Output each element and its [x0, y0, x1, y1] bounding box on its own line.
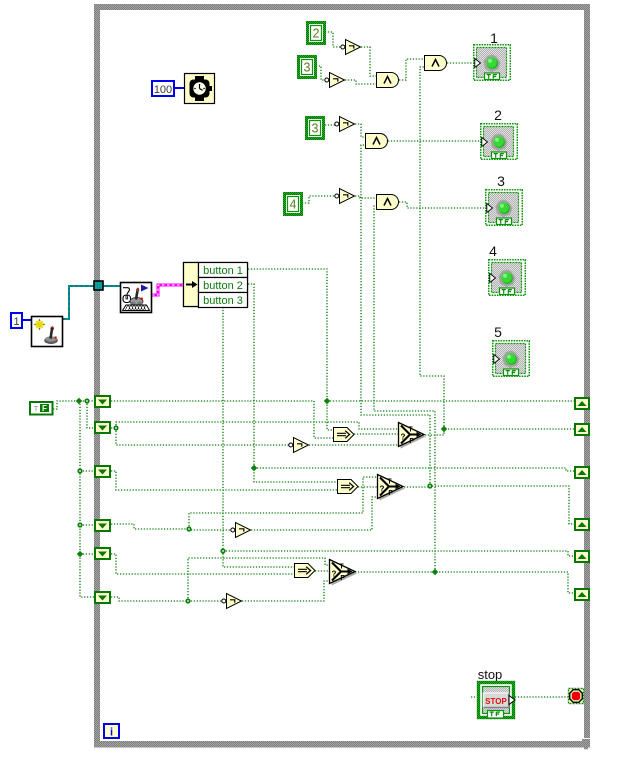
wire branch to shift register L2	[87, 401, 94, 428]
wire shift register L3 to implies P2 bottom	[111, 471, 337, 490]
LED indicator 5	[493, 341, 530, 377]
wire NOT D to AND F top	[355, 196, 376, 198]
initialize joystick node	[32, 317, 63, 347]
wire false constant to shift register L1	[53, 401, 94, 409]
wire implies P3 to select S3 s input	[315, 570, 329, 572]
numeric constant 2	[308, 23, 325, 44]
numeric constant 1	[11, 313, 22, 328]
junction on button1 wire	[324, 398, 331, 405]
wire shift register L6 to select S3 t input	[188, 558, 329, 601]
shift register left L1	[95, 396, 110, 407]
wire AND D to LED 2	[388, 140, 481, 142]
svg-text:4: 4	[489, 243, 497, 259]
wire select S3 output to right shift register R6	[355, 572, 576, 593]
wire NOT E to select S2 f input	[251, 497, 377, 530]
wire select S3 feedback to AND F bottom	[374, 206, 435, 572]
AND gate E	[425, 56, 447, 71]
wire constant3b to NOT C	[325, 124, 336, 126]
NOT gate F	[222, 594, 242, 609]
while loop border top	[94, 4, 590, 10]
shift register right R6	[575, 589, 589, 600]
select function S1	[399, 423, 427, 449]
wait ms function node	[185, 74, 215, 104]
wire shift register L6 to junction	[111, 597, 188, 601]
wire select S2 output to right shift register R4	[404, 486, 576, 524]
numeric constant 3b	[307, 118, 324, 139]
junction on false constant trunk at L4	[77, 522, 82, 527]
wire stop terminal to loop condition	[515, 696, 568, 698]
junction on button2 wire	[251, 465, 258, 472]
svg-text:button 3: button 3	[203, 295, 243, 307]
junction on shift register L2 wire	[113, 425, 118, 430]
NOT gate D	[335, 189, 355, 204]
svg-text:2: 2	[494, 107, 502, 123]
wire branch to shift register L3	[80, 470, 94, 472]
junction on false constant wire A	[76, 398, 83, 405]
wire shift register L4 to select S2 t input	[189, 477, 377, 529]
wire button3 to right shift register R5	[223, 551, 576, 556]
junction on button3 wire	[220, 548, 225, 553]
wire false constant trunk down left side	[80, 401, 94, 597]
LED indicator 4	[489, 260, 526, 296]
svg-text:3: 3	[304, 61, 311, 75]
wire branch to shift register L5	[80, 553, 94, 555]
junction on false constant wire B	[84, 398, 89, 403]
AND gate C	[377, 73, 399, 88]
svg-text:button 1: button 1	[203, 265, 243, 277]
boolean false constant	[30, 402, 53, 415]
shift register left L4	[95, 520, 110, 531]
svg-text:2: 2	[313, 27, 320, 41]
wire branch to shift register L4	[80, 524, 94, 526]
svg-text:STOP: STOP	[485, 697, 507, 706]
wire constant3a to NOT B	[316, 66, 326, 80]
wire select S1 feedback to AND E bottom	[420, 67, 444, 429]
while loop border right	[584, 4, 590, 738]
junction on false constant trunk at L5	[77, 551, 84, 558]
NOT gate A	[341, 40, 361, 55]
svg-text:i: i	[110, 727, 113, 739]
wire select S2 feedback to AND D bottom	[361, 145, 430, 486]
svg-text:4: 4	[290, 198, 297, 212]
while loop corner notch pieces	[582, 739, 590, 742]
svg-text:1: 1	[13, 316, 19, 328]
wire implies P1 to select S1 s input	[354, 433, 398, 435]
while loop border left	[94, 4, 100, 748]
LED indicator 2	[481, 124, 518, 160]
wire AND E to LED 1	[447, 62, 474, 64]
svg-text:1: 1	[490, 30, 498, 46]
junction on select S3 output	[432, 569, 439, 576]
wire magenta cluster acquire to unbundle	[152, 285, 183, 295]
wire AND C to AND E top	[399, 59, 424, 80]
stop button terminal	[479, 683, 516, 719]
numeric constant 100	[152, 81, 174, 96]
wire blue constant 100 to wait node	[175, 87, 184, 89]
junction on shift register L6 wire	[185, 598, 190, 603]
select function S2	[378, 475, 406, 501]
wire button2 to right shift register R3	[254, 468, 576, 471]
svg-text:T: T	[34, 406, 39, 413]
numeric constant 3a	[299, 57, 316, 78]
wire constant2 to NOT A	[325, 32, 342, 47]
wire stub left of stop terminal	[471, 696, 476, 698]
while loop border bottom	[94, 741, 590, 748]
svg-text:stop: stop	[478, 667, 503, 682]
NOT gate B	[325, 73, 345, 88]
NOT gate E	[231, 523, 251, 538]
wire shift register L2 to NOT G	[116, 428, 291, 445]
wire select S1 output to right shift register R2	[425, 429, 576, 435]
wire AND F to LED 3	[399, 202, 486, 208]
wire NOT A to AND C top	[361, 47, 376, 76]
implies gate P1	[334, 428, 355, 442]
svg-text:100: 100	[154, 84, 172, 96]
wire junction to NOT E	[189, 529, 231, 530]
wire junction to NOT F	[188, 600, 224, 602]
shift register right R3	[575, 467, 589, 478]
wire button1 down to implies P1 top	[248, 269, 333, 430]
wire button2 down to implies P2 top	[248, 284, 337, 482]
wire shift register L1 to implies P1 bottom	[111, 401, 333, 438]
junction on select S1 output	[441, 426, 448, 433]
junction on select S2 output	[427, 483, 432, 488]
wire NOT F to select S3 f input	[242, 581, 329, 601]
LED indicator 1	[474, 45, 511, 81]
wire NOT C to AND D top	[355, 124, 365, 137]
wire implies P2 to select S2 s input	[358, 486, 377, 488]
acquire input data node	[121, 283, 152, 313]
junction on shift register L4 wire	[186, 526, 191, 531]
svg-text:3: 3	[312, 122, 319, 136]
tunnel on loop border for device id	[94, 281, 103, 290]
implies gate P3	[295, 564, 316, 578]
shift register left L2	[95, 422, 110, 433]
wire teal device id to acquire node	[63, 286, 120, 319]
wire shift register L2 to select S1 t input	[116, 422, 398, 429]
shift register left L3	[95, 466, 110, 477]
svg-text:button 2: button 2	[203, 280, 243, 292]
NOT gate C	[335, 117, 355, 132]
unbundle by name node	[184, 263, 248, 308]
shift register left L6	[95, 592, 110, 603]
shift register left L5	[95, 548, 110, 559]
wire constant4 to NOT D	[302, 196, 335, 203]
loop condition terminal	[569, 689, 584, 704]
wire button3 down to implies P3 top	[223, 307, 294, 567]
wire blue constant 1 to initialize node	[23, 319, 31, 321]
svg-text:5: 5	[494, 324, 502, 340]
wire NOT B to AND C bottom	[345, 80, 376, 84]
numeric constant 4	[285, 194, 302, 215]
shift register right R1	[575, 398, 589, 409]
wire button1 to right shift register R1	[327, 400, 576, 402]
svg-text:3: 3	[497, 173, 505, 189]
LED indicator 3	[486, 190, 523, 226]
wire shift register L5 to implies P3 bottom	[111, 554, 294, 574]
AND gate F	[377, 195, 399, 210]
implies gate P2	[338, 480, 359, 494]
NOT gate G	[289, 438, 309, 453]
AND gate D	[366, 134, 388, 149]
shift register right R4	[575, 519, 589, 530]
iteration terminal i	[104, 724, 119, 739]
svg-text:F: F	[42, 404, 47, 413]
junction on false constant trunk at L3	[77, 468, 82, 473]
wire shift register L4 to junction	[111, 524, 189, 529]
wire NOT G to select S1 f input	[309, 444, 398, 446]
wire shift register L2 stub	[111, 427, 116, 429]
shift register right R5	[575, 551, 589, 562]
select function S3	[330, 560, 358, 586]
shift register right R2	[575, 424, 589, 435]
